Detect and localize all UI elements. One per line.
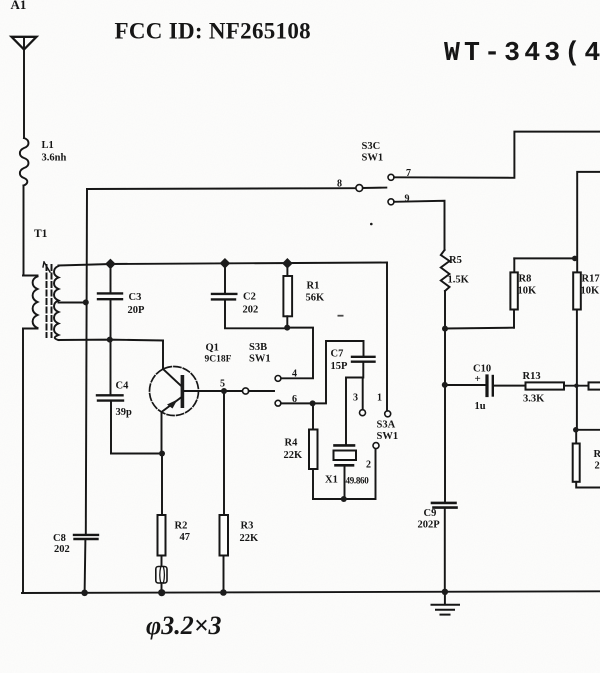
resistor R8 — [510, 258, 517, 327]
svg-text:3.3K: 3.3K — [523, 394, 545, 405]
svg-text:9C18F: 9C18F — [205, 355, 232, 365]
wire pin5 stub — [249, 390, 274, 392]
capacitor C9 — [432, 503, 457, 592]
junction node emitter — [159, 451, 165, 457]
svg-text:C2: C2 — [243, 292, 256, 303]
svg-text:47: 47 — [180, 532, 191, 543]
wire pin6 to R4/C7 node — [281, 341, 364, 403]
svg-text:202P: 202P — [418, 520, 441, 531]
junction node crystal bottom — [341, 496, 347, 502]
S3A pin1 contact — [385, 411, 391, 417]
S3B pin5 open circle — [243, 388, 249, 394]
svg-text:9: 9 — [405, 194, 410, 205]
S3B pin4 contact — [275, 376, 281, 382]
ground — [432, 591, 460, 615]
svg-text:3: 3 — [353, 393, 358, 404]
svg-text:φ3.2×3: φ3.2×3 — [146, 611, 222, 640]
wire transformer top to rail — [59, 264, 111, 266]
wire C10 branch — [445, 384, 485, 386]
wire crystal bottom net — [313, 449, 376, 499]
wire R8 top to R17 node — [514, 257, 575, 259]
svg-text:10K: 10K — [581, 286, 600, 297]
svg-text:56K: 56K — [306, 293, 326, 304]
junction diamond rail C2 — [220, 258, 231, 269]
junction node pin6/R4 — [310, 400, 316, 406]
crystal X1 — [334, 445, 357, 499]
junction node R5 bottom — [442, 326, 448, 332]
S3A pin3 contact — [360, 410, 366, 416]
svg-text:R2: R2 — [175, 521, 188, 532]
wire C7 to crystal — [346, 378, 363, 445]
svg-text:8: 8 — [337, 179, 342, 190]
junction rail R3 — [220, 589, 227, 596]
svg-text:R17: R17 — [582, 274, 600, 285]
svg-text:1u: 1u — [475, 401, 486, 412]
svg-text:3.6nh: 3.6nh — [42, 153, 67, 164]
junction diamond rail R1 — [282, 258, 293, 269]
resistor R5 zigzag — [441, 250, 450, 291]
resistor R13 — [526, 382, 600, 389]
resistor R17 — [573, 272, 581, 429]
resistor R3 — [220, 391, 229, 593]
S3C pin9 contact — [388, 199, 394, 205]
wire to switch pin 8 — [87, 187, 356, 190]
capacitor C2 — [212, 263, 287, 328]
resistor R21 partial — [573, 430, 600, 488]
svg-text:S3A: S3A — [377, 420, 396, 431]
svg-text:R: R — [594, 449, 600, 460]
junction node R8/R17 top — [572, 256, 578, 262]
wire pin9 to R5 — [394, 201, 445, 250]
svg-text:R4: R4 — [285, 438, 299, 449]
junction node C3/C4 — [107, 337, 113, 343]
transistor Q1 — [150, 341, 243, 454]
wire rail corner to pin1 — [386, 263, 388, 411]
svg-text:49.860: 49.860 — [346, 476, 370, 486]
svg-text:T1: T1 — [34, 228, 48, 240]
wire node to right edge — [576, 429, 600, 431]
wire R5 to node — [444, 291, 446, 329]
svg-text:+: + — [475, 373, 481, 385]
node top-left corner — [86, 189, 87, 534]
svg-text:R13: R13 — [523, 371, 541, 382]
wire top rail — [111, 263, 388, 265]
S3B pin6 contact — [275, 400, 281, 406]
svg-text:202: 202 — [243, 305, 259, 316]
wire transformer bottom to C4 node — [59, 339, 164, 342]
svg-text:5: 5 — [220, 379, 225, 390]
inductor L1 — [20, 138, 29, 186]
wire node to C9/ground — [444, 329, 446, 503]
svg-text:22K: 22K — [284, 450, 304, 461]
svg-text:WT-343(4: WT-343(4 — [444, 38, 600, 68]
svg-text:R1: R1 — [307, 281, 320, 292]
wire R1 bottom to S3B pin4 — [281, 328, 313, 379]
svg-text:C8: C8 — [53, 533, 66, 544]
svg-text:C4: C4 — [116, 381, 130, 392]
ground rail — [22, 591, 600, 593]
svg-text:2: 2 — [366, 460, 371, 471]
svg-text:X1: X1 — [325, 475, 338, 486]
svg-text:SW1: SW1 — [249, 354, 271, 365]
junction node base/R3 — [221, 388, 227, 394]
svg-text:S3C: S3C — [362, 141, 381, 152]
resistor R1 — [283, 263, 292, 327]
S3A pin2 pole contact — [373, 443, 379, 449]
svg-text:FCC ID: NF265108: FCC ID: NF265108 — [115, 19, 311, 44]
svg-text:10K: 10K — [518, 286, 538, 297]
wire antenna to transformer — [23, 186, 25, 276]
junction node C10 branch — [442, 382, 448, 388]
svg-text:Q1: Q1 — [206, 343, 219, 354]
resistor at right edge — [589, 382, 600, 389]
capacitor C8 — [74, 535, 98, 539]
wire transformer tap — [59, 302, 86, 304]
svg-text:4: 4 — [292, 369, 297, 380]
antenna A1 — [12, 37, 37, 138]
svg-text:C9: C9 — [424, 508, 437, 519]
svg-text:L1: L1 — [42, 140, 54, 151]
svg-text:C7: C7 — [331, 349, 344, 360]
svg-text:R5: R5 — [449, 255, 462, 266]
junction rail R2 — [158, 589, 165, 596]
speck — [370, 223, 373, 226]
junction node R1 bottom — [284, 325, 290, 331]
svg-text:SW1: SW1 — [362, 153, 384, 164]
speck — [338, 315, 344, 317]
wire C7 to S3A pin3 — [362, 378, 364, 410]
junction node transformer tap — [83, 299, 89, 305]
capacitor C3 — [98, 264, 122, 340]
svg-text:7: 7 — [406, 168, 411, 179]
S3C arm — [363, 187, 387, 189]
bead below R2 — [156, 567, 167, 594]
resistor R2 — [158, 454, 166, 567]
svg-text:15P: 15P — [331, 361, 349, 372]
wire pin7 to top right — [394, 132, 600, 178]
svg-text:A1: A1 — [11, 0, 27, 12]
junction node R13/R17 — [574, 384, 578, 388]
resistor R4 — [309, 403, 318, 499]
svg-text:20P: 20P — [128, 305, 146, 316]
junction node R21 top — [573, 427, 579, 433]
svg-text:39p: 39p — [116, 407, 133, 418]
svg-text:2: 2 — [595, 461, 600, 472]
svg-text:C3: C3 — [129, 292, 142, 303]
svg-text:R8: R8 — [519, 274, 532, 285]
S3C pin7 contact — [388, 174, 394, 180]
capacitor C7 — [352, 357, 375, 378]
svg-text:202: 202 — [54, 544, 70, 555]
junction rail C8 — [81, 590, 88, 597]
transformer T1 — [23, 262, 59, 593]
wire right edge to R17 — [577, 172, 600, 273]
svg-text:6: 6 — [292, 394, 297, 405]
wire R8 bottom rail — [445, 327, 513, 330]
svg-text:22K: 22K — [240, 533, 260, 544]
capacitor C10 electrolytic — [487, 376, 526, 396]
svg-text:1.5K: 1.5K — [448, 275, 470, 286]
wire C8 to ground rail — [84, 540, 87, 594]
capacitor C4 — [97, 340, 162, 454]
svg-text:R3: R3 — [241, 521, 254, 532]
switch S3C pin8 — [356, 185, 363, 192]
svg-text:1: 1 — [377, 393, 382, 404]
junction rail ground — [442, 589, 448, 595]
svg-text:SW1: SW1 — [377, 431, 399, 442]
junction diamond rail C3 — [105, 259, 116, 270]
svg-text:S3B: S3B — [249, 342, 267, 353]
